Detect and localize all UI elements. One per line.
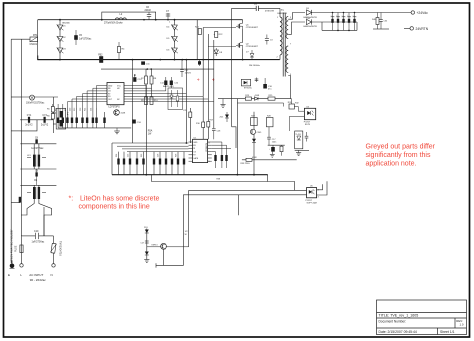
wire gate drive net A [196, 20, 198, 60]
svg-text:C35: C35 [384, 21, 389, 23]
svg-text:9: 9 [290, 74, 292, 76]
svg-text:R17: R17 [210, 120, 215, 122]
zener ZD2 [252, 139, 256, 143]
capacitor CY2 [41, 115, 49, 127]
capacitor C6 [145, 7, 152, 20]
resistor R7 [141, 69, 148, 84]
wire secondary tap 2 [288, 22, 305, 34]
svg-text:TITLE: TVE_rev_1_1605: TITLE: TVE_rev_1_1605 [379, 314, 419, 318]
svg-text:*:: *: [69, 195, 74, 202]
capacitor CY3 [19, 197, 22, 203]
svg-text:+: + [342, 15, 344, 17]
svg-text:C28: C28 [217, 131, 222, 133]
svg-text:+24Vdc: +24Vdc [417, 11, 429, 15]
wire lower return rail [152, 175, 295, 182]
svg-text:C22: C22 [69, 108, 71, 111]
wire TL431 bottom [295, 149, 309, 151]
svg-text:D7: D7 [246, 52, 249, 54]
optocoupler U3 [304, 107, 316, 127]
wire +24V rail [330, 12, 411, 14]
svg-text:D9: D9 [306, 8, 310, 10]
svg-text:HER504WTR: HER504WTR [304, 26, 318, 28]
svg-text:R26: R26 [288, 102, 293, 104]
svg-text:4148: 4148 [255, 95, 260, 97]
red plus mark left [197, 78, 200, 84]
mosfet Q2 [236, 29, 259, 60]
transistor Q7 [147, 243, 189, 265]
resistor R40 snubber [372, 13, 379, 28]
svg-text:1W: 1W [148, 134, 152, 136]
svg-text:C7: C7 [166, 11, 170, 13]
svg-text:R11: R11 [56, 108, 58, 111]
wire output ground rail [321, 22, 323, 30]
svg-text:SG6841D: SG6841D [205, 143, 207, 152]
svg-text:C16: C16 [137, 122, 142, 124]
wire bold elbow to bottom rail [38, 56, 60, 60]
wire aux mid line [241, 157, 297, 165]
svg-text:2: 2 [277, 57, 279, 59]
node N terminal circle [52, 264, 55, 267]
wire divider row bottom rail [58, 127, 131, 129]
svg-text:+: + [212, 78, 215, 84]
diode D12 in box [170, 90, 173, 107]
ground aux [218, 99, 237, 108]
svg-text:W: W [185, 234, 187, 236]
capacitor C19 [305, 132, 309, 142]
capacitor C7 [143, 11, 170, 20]
wire gate net D extension [213, 102, 215, 129]
snubber network box BAV21 [168, 88, 183, 110]
svg-text:GND: GND [108, 85, 113, 87]
resistor R22 gate [214, 32, 223, 38]
ferrite bead FB2 on rail [98, 54, 103, 62]
svg-text:+: + [269, 149, 271, 151]
diode D3 bridge [57, 48, 67, 54]
wire aux drop [236, 99, 238, 175]
wire earth rail far left [10, 39, 12, 263]
ground (earth) at AC input [10, 261, 15, 269]
wire aux vline [185, 60, 187, 143]
svg-text:R33 PWG: R33 PWG [241, 163, 250, 165]
node return output terminal [373, 27, 429, 31]
varistor RV1 [51, 236, 62, 264]
svg-text:LF1: LF1 [27, 155, 32, 157]
wire aux second line [237, 102, 283, 104]
svg-text:R4: R4 [122, 49, 126, 51]
svg-text:+: + [353, 15, 355, 17]
capacitor C12 [180, 60, 191, 77]
capacitor C30 electrolytic [331, 13, 335, 31]
node dots output rail [332, 12, 356, 32]
svg-text:1uF/275Vac: 1uF/275Vac [32, 240, 46, 243]
wire right EMI column lower [43, 207, 45, 236]
resistor R42 [207, 122, 210, 128]
capacitor C17 [267, 127, 276, 145]
svg-text:EER2834: EER2834 [278, 13, 288, 15]
wire top rail primary [38, 19, 243, 21]
resistor R43 [189, 112, 192, 118]
wire vline feed to cluster [111, 143, 113, 175]
red annotation: LiteOn note [69, 195, 160, 210]
svg-text:C9: C9 [35, 171, 39, 173]
capacitor C3 across primary [265, 35, 274, 45]
wire choke legs down [21, 199, 51, 236]
svg-text:R36: R36 [175, 154, 177, 157]
svg-text:C945: C945 [257, 132, 263, 134]
capacitor C16 [132, 120, 141, 124]
svg-text:R34: R34 [116, 154, 118, 157]
svg-text:LD7575PS: LD7575PS [109, 106, 121, 108]
thermistor RT1 [11, 34, 38, 46]
inductor L2 bypass loop [102, 12, 156, 24]
svg-text:CY1: CY1 [27, 115, 32, 117]
svg-text:8: 8 [209, 143, 211, 145]
svg-text:5: 5 [290, 17, 292, 19]
svg-text:FB2: FB2 [98, 54, 103, 56]
wire input loop left edge [37, 20, 39, 56]
wire HV startup line (starred net) [145, 85, 147, 175]
svg-text:1/2: 1/2 [185, 231, 189, 233]
wire gate drive net B [202, 28, 204, 97]
svg-text:7: 7 [290, 44, 292, 46]
node L terminal circle [20, 264, 23, 267]
wire net to row2 [189, 108, 191, 143]
svg-text:CN101: CN101 [30, 43, 38, 46]
svg-text:AC INPUT: AC INPUT [29, 273, 43, 277]
capacitor C28 [212, 129, 221, 140]
svg-text:1u/50V: 1u/50V [185, 73, 192, 75]
svg-text:90 - 264Vac: 90 - 264Vac [30, 278, 46, 282]
capacitor C4 below rail [198, 60, 201, 66]
svg-text:+: + [197, 78, 200, 84]
wire gate net C extension [207, 99, 209, 122]
svg-text:D8: D8 [219, 52, 223, 54]
wire earth stub CX [11, 130, 21, 132]
svg-text:C26: C26 [157, 154, 159, 157]
red annotation: greyed-out note [366, 144, 436, 168]
capacitor C8 [20, 138, 56, 150]
common mode choke LF2 [27, 185, 46, 199]
svg-text:R2: R2 [34, 180, 38, 182]
capacitor C9 [34, 169, 38, 185]
resistor R8 [150, 69, 157, 84]
AC input labels [8, 273, 53, 282]
diode D6 bridge col2 [167, 48, 178, 54]
ground secondary [296, 150, 301, 155]
capacitor C32 electrolytic [342, 13, 346, 31]
svg-text:1.0: 1.0 [460, 323, 464, 327]
svg-text:24VRTN: 24VRTN [416, 27, 429, 31]
svg-text:C8: C8 [35, 138, 39, 140]
resistor R26 boxed feed [284, 99, 295, 109]
capacitor C16A electrolytic aux [263, 78, 272, 90]
resistor divider row R11-R20 [56, 104, 106, 128]
wire earth stub mid [11, 96, 21, 98]
zener ZD3 chain [144, 227, 149, 260]
capacitor C11 below rail [141, 61, 150, 65]
resistor R37 [214, 155, 227, 161]
svg-text:470K/2W: 470K/2W [265, 11, 275, 13]
svg-text:KSP13: KSP13 [152, 244, 158, 246]
svg-text:T1: T1 [281, 10, 284, 12]
capacitor CX1 X-cap [21, 95, 58, 105]
svg-text:817B: 817B [305, 124, 310, 126]
svg-text:C21: C21 [60, 108, 62, 111]
wire staircase left legs [188, 190, 190, 247]
svg-text:D3: D3 [63, 49, 67, 51]
wire vcc drop [132, 60, 134, 143]
svg-text:DM 160Vdc: DM 160Vdc [249, 65, 260, 67]
wire gate drive net C [207, 34, 209, 99]
resistor R21 gate [195, 27, 201, 35]
svg-text:C2: C2 [254, 4, 258, 6]
capacitor C20 aux [170, 77, 179, 88]
svg-text:VCC: VCC [117, 85, 122, 87]
svg-text:GATE: GATE [193, 157, 199, 160]
svg-text:application note.: application note. [366, 160, 417, 167]
ground startup [144, 260, 149, 263]
resistor R4 [117, 42, 125, 60]
transistor Q6 [250, 112, 262, 175]
diode D15 [255, 95, 260, 100]
wire bottom rail (bulk DC minus) [38, 59, 280, 61]
svg-text:significantly from this: significantly from this [366, 152, 431, 159]
svg-text:C6: C6 [146, 7, 150, 9]
wire U1 right pin nets [212, 142, 231, 168]
svg-text:D1: D1 [63, 26, 67, 28]
node +24V output terminal [411, 11, 428, 15]
wire U2 left pin nets to divider row [67, 86, 101, 109]
capacitor C10 [22, 230, 54, 244]
wire EMI right column [52, 97, 54, 133]
svg-text:Sheet 1/1: Sheet 1/1 [440, 330, 455, 334]
svg-text:N: N [51, 273, 53, 277]
svg-text:D2: D2 [63, 37, 67, 39]
svg-text:GND: GND [193, 142, 198, 144]
wire mid EMI loop [20, 167, 56, 186]
svg-text:C23: C23 [80, 108, 82, 111]
regulator U4 TL431 block [295, 131, 303, 149]
svg-text:C24: C24 [90, 108, 92, 111]
svg-text:1: 1 [169, 22, 171, 24]
diode D9 [304, 8, 331, 19]
svg-text:1: 1 [277, 17, 279, 19]
svg-text:C3: C3 [270, 39, 274, 41]
svg-text:R32: R32 [295, 103, 300, 105]
capacitor C13 [133, 75, 142, 82]
svg-text:100nF/X2/275Vac: 100nF/X2/275Vac [26, 103, 45, 105]
capacitor C27 [141, 241, 149, 245]
svg-text:C5: C5 [79, 35, 83, 37]
svg-text:R5: R5 [47, 109, 50, 111]
ground aux lower [270, 152, 275, 158]
svg-text:R14: R14 [85, 108, 87, 111]
svg-text:ZD1: ZD1 [220, 117, 225, 119]
wire vline staircase to lower nets [232, 127, 236, 148]
capacitor C14 aux [160, 77, 167, 91]
capacitor C18 electrolytic [269, 145, 275, 151]
diode D7 aux [246, 50, 254, 60]
svg-text:1uF/275Vac: 1uF/275Vac [31, 148, 44, 150]
resistor R10 [150, 84, 158, 105]
capacitor C15 [255, 78, 259, 83]
svg-text:R8: R8 [154, 78, 158, 80]
svg-text:D4: D4 [167, 27, 171, 29]
svg-text:2n2/Y2: 2n2/Y2 [41, 125, 49, 127]
wire U2 right pin nets [130, 86, 214, 102]
svg-text:L2: L2 [120, 13, 123, 16]
red plus mark right [212, 78, 215, 84]
op IC U1 PWM [189, 137, 212, 162]
svg-text:3: 3 [318, 197, 320, 199]
fuse F1 [15, 236, 24, 264]
diode D14 boxed [241, 79, 252, 89]
zener ZD1 [220, 112, 230, 122]
svg-text:Document Number:: Document Number: [379, 320, 407, 324]
svg-text:100n: 100n [272, 141, 276, 143]
title block [377, 300, 467, 335]
svg-text:RT1: RT1 [33, 34, 38, 37]
svg-text:220nF: 220nF [145, 10, 152, 12]
svg-text:2n2/Y2: 2n2/Y2 [25, 125, 33, 127]
diode D1 bridge [57, 20, 67, 60]
capacitor C34 electrolytic [353, 13, 357, 31]
svg-text:C27: C27 [141, 243, 144, 245]
wire earth stub CY3 [11, 202, 20, 204]
svg-text:PC817: PC817 [306, 200, 313, 202]
svg-text:1uF/275Vac: 1uF/275Vac [79, 39, 92, 41]
wire rail 2 (aux) [101, 68, 214, 70]
row2 components R/C network [119, 152, 185, 175]
svg-text:R16: R16 [196, 123, 201, 125]
wire opto feed [289, 103, 304, 132]
svg-text:D5: D5 [167, 38, 171, 40]
svg-text:C11: C11 [146, 63, 151, 65]
resistor R19 in box [176, 90, 179, 107]
svg-text:47u: 47u [268, 88, 272, 90]
wire left AC column [20, 39, 22, 236]
wire secondary tap 1 [288, 13, 305, 20]
svg-text:C20: C20 [174, 83, 179, 85]
node tick [155, 263, 157, 267]
svg-text:C10: C10 [34, 230, 39, 233]
node dots main rails [59, 19, 255, 176]
resistor R25 [268, 95, 275, 100]
wire stub mid [238, 195, 240, 216]
transistor Q3 [114, 110, 126, 116]
wire tap2 drop [356, 22, 358, 30]
diode D4 bridge col2 [167, 20, 178, 60]
node dots on aux rail [147, 68, 149, 70]
wire feedback pair upper [295, 182, 307, 191]
svg-text:BYV26C: BYV26C [244, 87, 252, 89]
resistor chain left of divider [47, 104, 54, 120]
capacitor C5 bulk [74, 30, 92, 45]
optocoupler U5 [306, 186, 318, 205]
svg-text:Greyed out parts differ: Greyed out parts differ [366, 144, 436, 151]
wire transformer lower tap to feedback [288, 76, 290, 99]
svg-text:SOP?-GA7: SOP?-GA7 [307, 202, 318, 205]
capacitor CY1 [20, 115, 53, 127]
svg-text:R13: R13 [74, 108, 76, 111]
wire snubber top [232, 8, 257, 126]
resistor R41 [202, 122, 205, 128]
svg-text:components in this line: components in this line [79, 204, 150, 211]
wire gate net B extension to U1 [202, 96, 204, 122]
svg-text:C14: C14 [160, 83, 165, 85]
diode D10 [304, 18, 358, 28]
earth filter block [53, 109, 68, 130]
svg-text:4148: 4148 [121, 113, 126, 115]
mosfet Q1 [236, 20, 259, 29]
svg-text:BAV21 (A/L): BAV21 (A/L) [163, 85, 174, 88]
wire main primary ground rail [112, 174, 268, 176]
resistor R29 [280, 145, 283, 156]
svg-text:D6: D6 [167, 50, 171, 52]
capacitor C35 snubber [379, 13, 388, 28]
svg-text:Q2: Q2 [246, 44, 250, 46]
svg-text:Q1: Q1 [246, 24, 250, 26]
wire opto U5 right stubs [317, 181, 327, 195]
svg-text:GBU406: GBU406 [62, 23, 71, 25]
svg-text:C29: C29 [183, 110, 188, 112]
svg-text:R38: R38 [217, 178, 222, 180]
diode D8 gate [214, 48, 223, 56]
zener ZD4 [145, 252, 149, 256]
common mode choke LF1 [27, 144, 46, 167]
resistor R28 boxed [266, 116, 273, 127]
svg-text:TL431: TL431 [295, 134, 300, 136]
svg-text:R22: R22 [219, 34, 224, 36]
svg-text:FUSE: FUSE [15, 245, 18, 252]
svg-text:R5A: R5A [148, 130, 153, 133]
resistor R27 boxed [251, 116, 258, 126]
resistor R9 [141, 84, 148, 105]
svg-text:L: L [20, 273, 22, 277]
svg-text:R12: R12 [65, 108, 67, 111]
svg-text:+: + [331, 15, 333, 17]
svg-text:R6: R6 [47, 116, 50, 118]
capacitor C33 electrolytic [347, 13, 351, 31]
capacitor C2 snubber [254, 4, 280, 11]
transformer T1 [278, 8, 289, 76]
svg-text:E: E [8, 273, 10, 277]
svg-text:270uH/10A Choke: 270uH/10A Choke [104, 21, 123, 24]
wire gate drive net D [213, 40, 215, 102]
diode D5 bridge col2 [167, 36, 178, 42]
capacitor C31 electrolytic [336, 13, 340, 31]
wire rail step down [267, 175, 269, 182]
wire Y-cap return loop [21, 120, 37, 131]
resistor R23 [245, 95, 251, 100]
svg-text:CTN2404RT: CTN2404RT [246, 27, 259, 29]
svg-text:+: + [336, 15, 338, 17]
svg-text:R35: R35 [141, 154, 143, 157]
diode D2 bridge [57, 36, 67, 42]
svg-text:C25: C25 [127, 154, 129, 157]
svg-text:Date: 2/15/2007 09:45:44: Date: 2/15/2007 09:45:44 [379, 330, 417, 334]
svg-text:TNR10G471K: TNR10G471K [59, 241, 62, 256]
svg-text:R7: R7 [141, 78, 145, 80]
svg-text:PC817: PC817 [304, 122, 311, 124]
label cluster smudges [62, 17, 320, 199]
svg-text:4148: 4148 [252, 157, 257, 159]
svg-text:LiteOn has some discrete: LiteOn has some discrete [80, 195, 159, 202]
wire feedback pair lower [183, 194, 306, 196]
wire lower aux rail [268, 144, 285, 146]
svg-text:CTN2404RT: CTN2404RT [246, 46, 259, 48]
wire aux feed line [237, 98, 291, 100]
